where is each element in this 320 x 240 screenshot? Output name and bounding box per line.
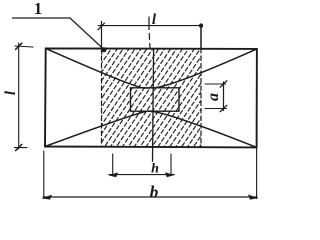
centerline top extension (dashed)	[149, 17, 150, 48]
diagonal top-right	[152, 49, 257, 88]
dimension l (top): extension line left	[101, 22, 103, 48]
dimension a: dimension line	[223, 82, 225, 111]
dimension l (left): extension line top	[15, 46, 33, 47]
diagonal top-left	[46, 48, 150, 88]
diagonal bottom-right	[149, 111, 257, 147]
diagonal bottom-left	[45, 111, 154, 146]
dimension b: dimension line	[43, 196, 257, 198]
dimension a: top tick	[220, 81, 227, 87]
strip right dashed boundary	[200, 49, 202, 148]
svg-text:h: h	[151, 161, 159, 176]
dimension h: left arrow	[109, 172, 118, 177]
dimension b: left arrow	[42, 195, 52, 200]
dimension a: extension line top	[205, 83, 226, 85]
dimension l (left): dimension line	[18, 43, 20, 149]
svg-text:1: 1	[34, 0, 42, 18]
dimension a: bottom tick	[220, 105, 227, 111]
dimension b: right arrow	[248, 194, 258, 199]
vertical centerline	[153, 49, 154, 162]
inner rectangle (column)	[131, 88, 180, 111]
svg-text:b: b	[150, 182, 159, 201]
dimension b: extension line left	[43, 151, 45, 199]
outer rectangle	[45, 48, 257, 147]
dimension l (top): left tick	[98, 23, 104, 30]
hatched strip	[37, 45, 268, 150]
svg-text:a: a	[205, 93, 222, 101]
dimension l (left): top tick	[16, 43, 22, 49]
dimension h: extension line left	[112, 154, 114, 176]
dimension l (left): bottom tick	[16, 144, 22, 150]
dimension l (top): extension line right	[200, 25, 202, 49]
dimension l (top): dimension line	[98, 25, 201, 27]
dimension h: right arrow	[165, 172, 175, 177]
strip left dashed boundary	[101, 49, 103, 148]
leader dot	[102, 47, 107, 52]
dimension h: extension line right	[170, 154, 172, 176]
leader line for label 1	[13, 18, 105, 50]
dimension a: extension line bottom	[205, 108, 227, 110]
dimension l (top): right end dot	[199, 23, 203, 27]
dimension b: extension line right	[256, 147, 258, 198]
dimension h: dimension line	[109, 174, 174, 176]
dimension l (left): extension line bottom	[15, 147, 28, 149]
